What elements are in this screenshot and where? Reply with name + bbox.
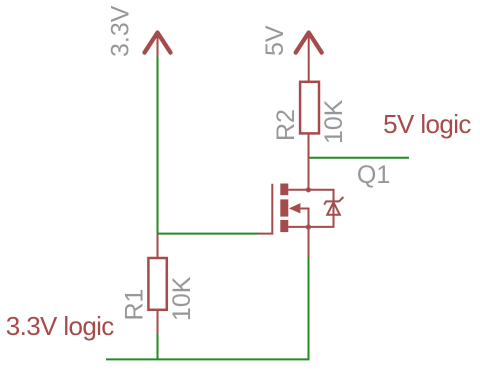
zener cathode bar [324,197,343,205]
supply arrow 3.3V [145,32,171,57]
svg-text:Q1: Q1 [357,161,390,189]
gate lead [258,184,272,234]
body link [300,209,308,227]
channel bar source [280,220,288,232]
wire source vertical [308,257,310,360]
svg-text:10K: 10K [168,276,196,321]
channel bar drain [280,184,288,196]
svg-text:3.3V logic: 3.3V logic [6,311,115,341]
transistor Q1 (N-MOSFET) [258,184,309,258]
channel bar body [280,199,288,216]
drain wire [288,189,308,191]
wire bottom horizontal [106,358,310,360]
body arrow [289,203,301,213]
junction dot drain [306,187,311,192]
resistor R1 [148,234,166,334]
wire R1 bottom to ground rail [157,334,159,361]
wire 3.3V rail vertical [157,55,159,234]
svg-text:3.3V: 3.3V [107,5,135,57]
wire gate net horizontal [158,233,259,235]
source wire [288,226,308,228]
diode triangle [327,202,340,215]
body diode (zener) of Q1 [309,190,344,227]
wire 5V logic output [308,157,409,159]
svg-text:10K: 10K [320,99,348,144]
svg-text:R1: R1 [121,289,149,321]
svg-text:5V: 5V [261,25,289,56]
svg-text:5V logic: 5V logic [383,109,471,139]
svg-text:R2: R2 [272,109,300,141]
junction dot source [306,224,311,229]
supply arrow 5V [296,32,322,82]
resistor R2 [300,82,319,190]
source pin [308,227,310,258]
